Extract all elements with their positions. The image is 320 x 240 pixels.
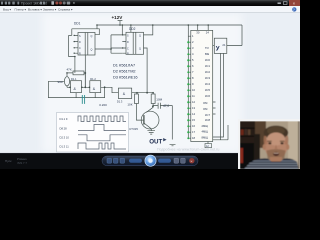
svg-text:+12V: +12V: [112, 15, 124, 20]
svg-text:ВЫ: ВЫ: [205, 52, 210, 56]
svg-text:DD1: DD1: [74, 22, 81, 26]
svg-text:D8 28: D8 28: [60, 127, 68, 131]
svg-text:КС4: КС4: [205, 82, 210, 86]
svg-text:10: 10: [192, 88, 195, 92]
svg-text:D1.3 11: D1.3 11: [60, 145, 70, 149]
svg-text:Подробнее на www.forum-cxem.ne: Подробнее на www.forum-cxem.net.ru: [157, 148, 219, 152]
svg-text:16: 16: [192, 124, 195, 128]
svg-text:Q: Q: [91, 35, 93, 38]
svg-text:D3 К561ИЕ16: D3 К561ИЕ16: [113, 74, 138, 79]
svg-text:Q: Q: [91, 49, 93, 52]
svg-text:КТ315: КТ315: [129, 127, 138, 131]
svg-text:ISIS 7.7: ISIS 7.7: [17, 161, 27, 165]
svg-text:990: 990: [58, 80, 63, 84]
svg-text:10М: 10М: [156, 98, 162, 102]
svg-text:D: D: [79, 41, 81, 44]
svg-text:D: D: [127, 41, 129, 44]
svg-text:47К: 47К: [67, 68, 72, 72]
svg-text:C: C: [127, 48, 129, 51]
svg-text:D2 К561ТМ2: D2 К561ТМ2: [113, 68, 136, 73]
svg-text:4МЩ: 4МЩ: [202, 130, 209, 134]
svg-text:ОМ: ОМ: [203, 107, 208, 111]
svg-text:18: 18: [192, 136, 195, 140]
svg-text:8МЩ: 8МЩ: [202, 135, 209, 139]
svg-text:×: ×: [293, 1, 296, 6]
svg-text:D1.3: D1.3: [117, 99, 123, 103]
svg-text:0.200: 0.200: [99, 103, 107, 107]
svg-text:15: 15: [192, 118, 195, 122]
svg-text:Пуск: Пуск: [5, 159, 12, 163]
svg-text:2МЩ: 2МЩ: [202, 124, 209, 128]
svg-text:Справка ▾: Справка ▾: [58, 8, 73, 12]
svg-text:ТИ: ТИ: [205, 46, 209, 50]
svg-text:ОМ: ОМ: [203, 101, 208, 105]
svg-text:?: ?: [293, 8, 295, 12]
svg-text:OUT: OUT: [149, 139, 162, 146]
svg-text:Проект ЭМУ2.1б: Проект ЭМУ2.1б: [21, 2, 47, 6]
svg-text:D1.1 9: D1.1 9: [60, 117, 68, 121]
svg-text:У: У: [216, 46, 220, 52]
svg-text:КС0: КС0: [205, 58, 210, 62]
svg-text:КС7: КС7: [205, 113, 210, 117]
svg-text:КС1: КС1: [205, 64, 210, 68]
svg-text:Вид ▾: Вид ▾: [3, 8, 11, 12]
svg-text:17: 17: [192, 130, 195, 134]
svg-text:47,0: 47,0: [163, 104, 169, 108]
svg-text:Q: Q: [139, 48, 141, 51]
svg-text:КС3: КС3: [205, 76, 210, 80]
svg-text:R: R: [79, 53, 81, 56]
svg-text:R: R: [127, 53, 129, 56]
svg-text:D1.2: D1.2: [90, 77, 96, 81]
svg-text:14: 14: [192, 112, 195, 116]
svg-text:D2.3 10: D2.3 10: [60, 136, 70, 140]
svg-text:13: 13: [192, 106, 195, 110]
svg-text:Вставка ▾: Вставка ▾: [28, 8, 42, 12]
svg-text:КС2: КС2: [205, 70, 210, 74]
svg-text:24: 24: [206, 31, 210, 35]
svg-text:12: 12: [192, 100, 195, 104]
svg-text:Плеер ▾: Плеер ▾: [15, 8, 27, 12]
svg-text:Замена ▾: Замена ▾: [43, 8, 57, 12]
svg-text:D1.1: D1.1: [71, 77, 77, 81]
svg-text:Q: Q: [139, 35, 141, 38]
svg-text:30: 30: [196, 31, 200, 35]
svg-text:DD2: DD2: [129, 27, 136, 31]
svg-text:21: 21: [222, 43, 226, 47]
svg-text:D1 К561ЛА7: D1 К561ЛА7: [113, 63, 135, 68]
svg-text:КС5: КС5: [205, 88, 210, 92]
svg-text:КС6: КС6: [205, 94, 210, 98]
svg-text:10К: 10К: [127, 103, 132, 107]
svg-text:C: C: [79, 47, 81, 50]
svg-text:КС8: КС8: [205, 118, 210, 122]
